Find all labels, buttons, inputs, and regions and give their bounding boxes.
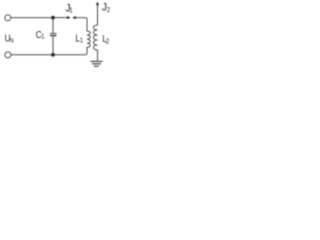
- svg-text:1: 1: [41, 33, 45, 41]
- svg-text:1: 1: [69, 7, 73, 15]
- svg-text:N: N: [10, 37, 14, 45]
- svg-text:2: 2: [106, 38, 110, 46]
- svg-text:1: 1: [80, 37, 84, 45]
- svg-text:2: 2: [107, 6, 111, 14]
